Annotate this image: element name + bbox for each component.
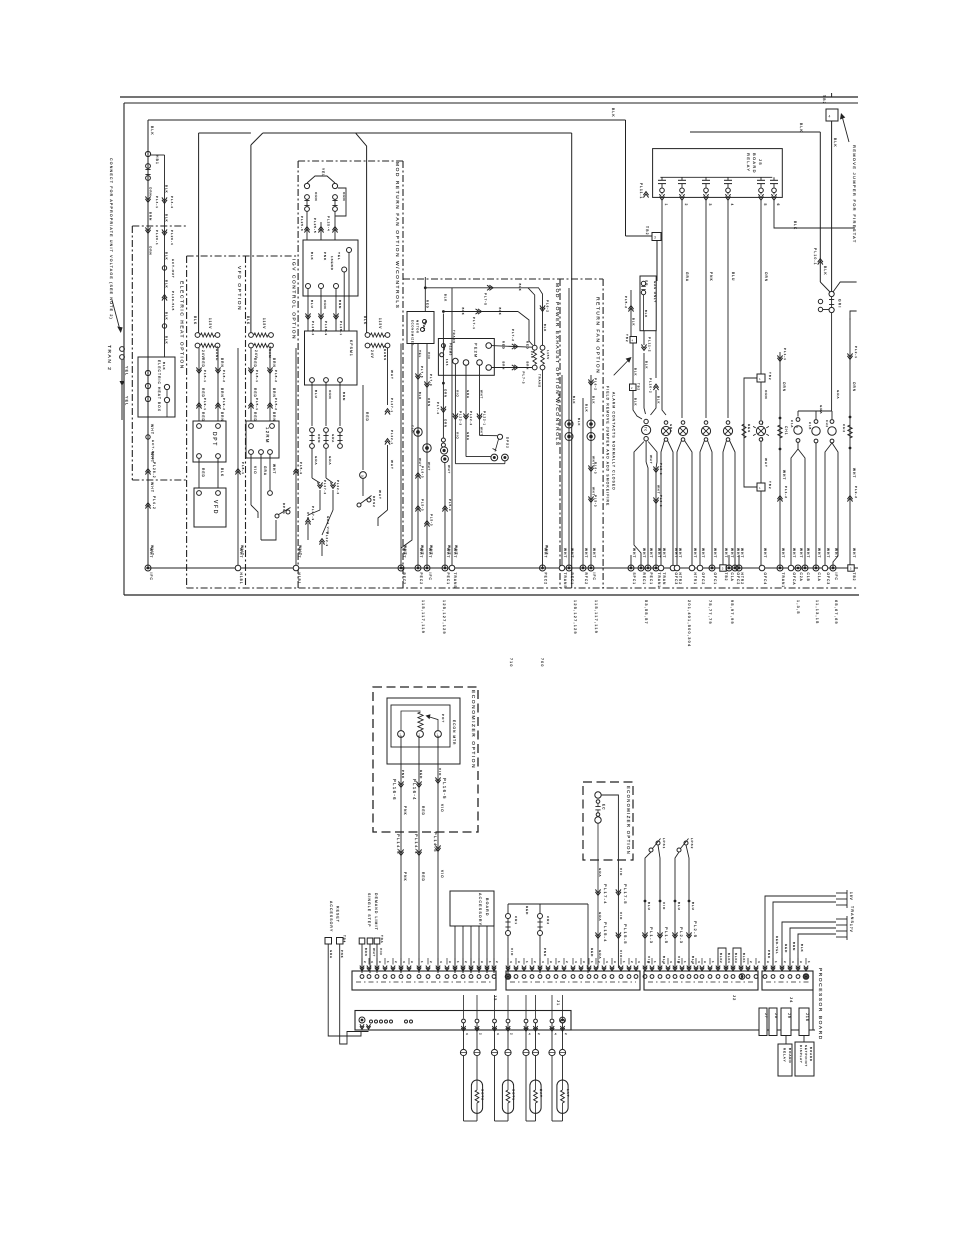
svg-text:4: 4 <box>697 961 701 964</box>
svg-text:J3: J3 <box>493 995 497 1002</box>
svg-text:PL15-4: PL15-4 <box>603 922 608 943</box>
svg-text:TRAN1: TRAN1 <box>781 573 785 589</box>
svg-text:PNK: PNK <box>709 272 713 282</box>
svg-text:1: 1 <box>488 961 492 964</box>
svg-text:4: 4 <box>472 961 476 964</box>
svg-text:ORN: ORN <box>764 272 768 282</box>
svg-text:WHT: WHT <box>390 460 394 470</box>
svg-text:IFC: IFC <box>592 573 596 581</box>
svg-text:PL5-2: PL5-2 <box>624 296 628 309</box>
svg-text:YEL: YEL <box>125 366 129 376</box>
svg-text:PL6-2: PL6-2 <box>594 378 598 391</box>
svg-text:CH1: CH1 <box>784 426 788 436</box>
svg-text:WHT: WHT <box>453 548 457 558</box>
svg-text:PL1-2: PL1-2 <box>784 486 788 499</box>
svg-text:WHT: WHT <box>592 548 596 558</box>
svg-text:IFC: IFC <box>149 573 153 581</box>
svg-text:3: 3 <box>410 961 414 964</box>
svg-text:CONNECT FOR APPROPRIATE UNIT V: CONNECT FOR APPROPRIATE UNIT VOLTAGE (SE… <box>109 158 113 320</box>
svg-text:1: 1 <box>557 961 561 964</box>
svg-text:WHT: WHT <box>713 548 717 558</box>
svg-text:GRA: GRA <box>331 434 335 443</box>
svg-text:PL5-2: PL5-2 <box>274 398 278 411</box>
svg-text:BLK: BLK <box>193 316 197 325</box>
svg-text:PNK: PNK <box>543 948 547 957</box>
svg-text:BLK: BLK <box>634 398 638 406</box>
svg-text:J7: J7 <box>764 1013 768 1019</box>
svg-text:TRANS: TRANS <box>383 346 387 361</box>
svg-text:4: 4 <box>496 1033 500 1036</box>
svg-text:ECON MTR: ECON MTR <box>452 720 456 745</box>
svg-text:PEC2: PEC2 <box>544 573 548 586</box>
svg-text:PL20-1: PL20-1 <box>155 230 159 246</box>
svg-text:VIO: VIO <box>619 912 623 920</box>
svg-text:2: 2 <box>510 1033 514 1036</box>
svg-text:WHT: WHT <box>378 490 382 500</box>
svg-text:BLK: BLK <box>577 418 581 426</box>
svg-text:VIO: VIO <box>253 466 257 475</box>
svg-text:2: 2 <box>394 961 398 964</box>
svg-text:RED: RED <box>425 300 429 309</box>
svg-text:53,55,57: 53,55,57 <box>644 600 648 625</box>
svg-text:3: 3 <box>613 961 617 964</box>
svg-text:DPT: DPT <box>211 432 217 447</box>
svg-text:BLK: BLK <box>220 468 224 477</box>
svg-text:WHT: WHT <box>852 548 856 558</box>
svg-text:DEMAND LIMIT: DEMAND LIMIT <box>374 893 378 931</box>
svg-text:BLU: BLU <box>677 902 681 911</box>
svg-text:TB2: TB2 <box>852 573 856 582</box>
svg-text:4: 4 <box>791 961 795 964</box>
svg-text:1: 1 <box>590 961 594 964</box>
svg-text:BLU: BLU <box>647 902 651 911</box>
svg-text:BLK: BLK <box>572 396 576 404</box>
svg-text:BLK: BLK <box>165 185 169 194</box>
svg-text:YEL: YEL <box>418 350 422 358</box>
svg-text:201,401,500,304: 201,401,500,304 <box>687 600 691 647</box>
svg-text:4: 4 <box>528 1033 532 1036</box>
svg-text:ORN: ORN <box>314 192 318 202</box>
svg-text:2: 2 <box>661 961 665 964</box>
svg-text:4: 4 <box>554 1033 558 1036</box>
svg-text:PL4-2: PL4-2 <box>152 496 156 510</box>
svg-text:WHT: WHT <box>730 548 734 558</box>
svg-text:BRN: BRN <box>526 362 530 371</box>
svg-text:MOTOR: MOTOR <box>416 320 420 334</box>
svg-text:VIO: VIO <box>619 868 623 876</box>
svg-text:WHT: WHT <box>781 548 785 558</box>
svg-text:PNK: PNK <box>323 252 327 261</box>
svg-text:PEC2: PEC2 <box>419 573 423 586</box>
svg-text:WHT: WHT <box>724 548 728 558</box>
svg-text:BRN: BRN <box>338 300 342 309</box>
svg-text:BRN: BRN <box>792 942 796 951</box>
svg-text:ORN: ORN <box>149 246 153 256</box>
svg-text:WHT: WHT <box>782 470 786 480</box>
svg-text:SCT1: SCT1 <box>512 1089 516 1101</box>
svg-text:J5: J5 <box>758 159 763 166</box>
svg-text:VIO: VIO <box>427 352 431 360</box>
svg-text:4: 4 <box>605 961 609 964</box>
svg-text:IGV CONTROL OPTION: IGV CONTROL OPTION <box>291 259 297 340</box>
svg-text:ELECTRIC HEAT OPTION: ELECTRIC HEAT OPTION <box>179 281 185 370</box>
svg-text:4: 4 <box>637 961 641 964</box>
svg-text:2: 2 <box>597 961 601 964</box>
svg-text:ORN: ORN <box>328 390 332 400</box>
svg-text:REMOVE JUMPER FOR FIRESTAT: REMOVE JUMPER FOR FIRESTAT <box>852 145 857 244</box>
svg-text:BRN: BRN <box>272 358 276 368</box>
svg-text:2: 2 <box>783 961 787 964</box>
svg-text:GRI: GRI <box>838 299 842 308</box>
svg-text:4: 4 <box>669 961 673 964</box>
svg-text:PL17-5: PL17-5 <box>623 884 628 905</box>
svg-text:WHT: WHT <box>149 548 153 558</box>
svg-text:TRANS: TRANS <box>850 906 854 924</box>
svg-text:WHT: WHT <box>649 455 653 464</box>
svg-text:PL1-5: PL1-5 <box>664 927 669 944</box>
svg-text:ORN: ORN <box>317 434 321 443</box>
svg-text:2: 2 <box>565 961 569 964</box>
svg-text:RED: RED <box>253 358 257 368</box>
svg-text:WHT: WHT <box>427 462 431 471</box>
svg-text:GRA: GRA <box>328 456 332 465</box>
svg-text:3: 3 <box>703 961 707 964</box>
svg-text:2: 2 <box>719 961 723 964</box>
svg-text:BLK: BLK <box>543 324 547 332</box>
svg-text:LAT: LAT <box>566 1089 570 1098</box>
svg-text:PL6-2: PL6-2 <box>546 300 550 313</box>
svg-text:GAS ONLY: GAS ONLY <box>653 281 657 303</box>
svg-text:YEL: YEL <box>337 252 341 261</box>
svg-text:RED: RED <box>201 412 205 422</box>
svg-text:WHT: WHT <box>852 468 856 478</box>
svg-text:L5: L5 <box>171 306 175 311</box>
svg-text:TRANS: TRANS <box>452 330 456 344</box>
svg-text:24V: 24V <box>530 351 534 359</box>
svg-text:WHT: WHT <box>740 548 744 558</box>
svg-text:KFSM1: KFSM1 <box>349 340 353 357</box>
svg-text:PL22-1: PL22-1 <box>483 411 487 426</box>
svg-text:PL16-4: PL16-4 <box>412 779 417 801</box>
svg-text:REC1: REC1 <box>570 573 574 586</box>
svg-text:BRN: BRN <box>502 362 506 371</box>
svg-text:IFC: IFC <box>428 573 432 581</box>
svg-text:1: 1 <box>456 961 460 964</box>
svg-text:BLK: BLK <box>461 308 465 316</box>
svg-text:1: 1 <box>711 961 715 964</box>
svg-text:BLK: BLK <box>585 404 589 413</box>
svg-text:3: 3 <box>378 961 382 964</box>
svg-text:BLK: BLK <box>799 123 803 133</box>
svg-text:4: 4 <box>541 961 545 964</box>
svg-text:BLK: BLK <box>165 312 169 321</box>
svg-text:ORN: ORN <box>782 382 786 392</box>
svg-text:RED: RED <box>253 388 257 398</box>
svg-text:BLK: BLK <box>592 396 596 404</box>
svg-text:ECONOMIZER OPTION: ECONOMIZER OPTION <box>470 690 476 769</box>
svg-text:RED: RED <box>525 906 529 915</box>
svg-text:TRANS: TRANS <box>538 374 542 388</box>
svg-text:4: 4 <box>730 204 734 207</box>
svg-text:BRN: BRN <box>149 212 153 221</box>
svg-text:OFC1: OFC1 <box>713 573 717 586</box>
svg-text:ECONOMIZER: ECONOMIZER <box>411 320 415 346</box>
svg-text:4: 4 <box>757 961 761 964</box>
svg-text:PL11-2: PL11-2 <box>648 337 652 352</box>
svg-text:VIO: VIO <box>379 948 383 956</box>
svg-text:BLK: BLK <box>632 318 636 326</box>
svg-text:ELECTRIC HEAT BOX: ELECTRIC HEAT BOX <box>157 360 161 412</box>
svg-text:PNK: PNK <box>767 950 771 959</box>
svg-text:2: 2 <box>684 204 688 207</box>
svg-text:DISPLAY: DISPLAY <box>799 1045 803 1064</box>
svg-text:TRAN1: TRAN1 <box>657 573 661 589</box>
svg-text:WHT: WHT <box>297 548 301 558</box>
svg-text:BRN: BRN <box>220 412 224 422</box>
svg-text:WHT: WHT <box>150 482 154 493</box>
svg-text:WHT: WHT <box>649 548 653 558</box>
svg-text:BRN: BRN <box>272 412 276 422</box>
svg-text:3: 3 <box>766 961 770 964</box>
svg-text:PL8-2: PL8-2 <box>222 370 226 383</box>
svg-text:PE2M: PE2M <box>474 343 478 358</box>
svg-text:BLK: BLK <box>793 221 797 230</box>
svg-text:WHT: WHT <box>372 948 376 957</box>
svg-text:125,127,129: 125,127,129 <box>442 600 446 635</box>
svg-text:710: 710 <box>509 658 513 668</box>
svg-text:3: 3 <box>448 961 452 964</box>
svg-text:PL5-3: PL5-3 <box>299 462 303 475</box>
svg-text:H1B1: H1B1 <box>239 573 243 585</box>
svg-text:YEL: YEL <box>321 168 325 177</box>
svg-text:YEL: YEL <box>125 396 129 406</box>
svg-text:GRA: GRA <box>669 424 673 433</box>
svg-text:BLK: BLK <box>657 396 661 404</box>
svg-text:2: 2 <box>749 961 753 964</box>
svg-text:PL25-5: PL25-5 <box>313 218 317 234</box>
svg-text:DPS2: DPS2 <box>506 437 510 449</box>
svg-text:BRN: BRN <box>220 388 224 398</box>
svg-text:PL5-1: PL5-1 <box>255 398 259 411</box>
svg-text:PL28-3: PL28-3 <box>324 321 328 336</box>
svg-text:115V: 115V <box>378 318 382 329</box>
svg-text:BLK: BLK <box>557 394 561 403</box>
svg-text:RETURN FAN OPTION: RETURN FAN OPTION <box>595 297 601 374</box>
svg-text:LPS1: LPS1 <box>662 838 666 849</box>
svg-text:4: 4 <box>632 339 634 343</box>
svg-text:WHT: WHT <box>480 390 484 399</box>
svg-text:PL8-1: PL8-1 <box>203 370 207 383</box>
svg-text:WHT: WHT <box>563 548 567 558</box>
svg-text:MOD POWER EXHAUST OPTION W/CON: MOD POWER EXHAUST OPTION W/CONTROLS <box>554 283 560 447</box>
svg-text:LPS2: LPS2 <box>690 838 694 849</box>
svg-text:RFC2: RFC2 <box>402 573 406 586</box>
svg-text:SPC1: SPC1 <box>632 573 636 586</box>
svg-text:C1A: C1A <box>817 573 821 582</box>
svg-text:3: 3 <box>480 961 484 964</box>
svg-text:PL22-3: PL22-3 <box>459 411 463 426</box>
svg-text:PL22-3: PL22-3 <box>325 532 329 547</box>
svg-text:PL27-2: PL27-2 <box>323 480 327 495</box>
svg-text:1: 1 <box>653 961 657 964</box>
svg-text:RED-YEL: RED-YEL <box>775 936 779 955</box>
svg-text:PL17-4: PL17-4 <box>603 884 608 905</box>
svg-text:TB2: TB2 <box>724 573 728 582</box>
svg-text:ORN: ORN <box>444 419 448 428</box>
svg-text:GRA: GRA <box>263 466 267 476</box>
svg-text:VIO: VIO <box>510 948 514 956</box>
svg-text:WHT: WHT <box>447 465 451 474</box>
svg-text:1: 1 <box>759 377 761 381</box>
svg-text:PL2-5: PL2-5 <box>693 921 698 938</box>
svg-text:PL7-4: PL7-4 <box>436 402 440 415</box>
svg-text:GRA: GRA <box>598 868 602 877</box>
svg-text:TB2: TB2 <box>637 383 641 391</box>
svg-text:4: 4 <box>370 961 374 964</box>
svg-text:BLK: BLK <box>418 392 422 400</box>
svg-text:BLK: BLK <box>634 368 638 376</box>
svg-text:PL7-2: PL7-2 <box>511 329 515 342</box>
svg-text:RELAY: RELAY <box>746 153 751 172</box>
svg-text:J1: J1 <box>556 1000 560 1007</box>
svg-text:OFC4: OFC4 <box>763 573 767 586</box>
svg-text:HB1: HB1 <box>155 155 159 165</box>
svg-text:WHT: WHT <box>763 548 767 558</box>
svg-text:ORN: ORN <box>323 300 327 310</box>
svg-text:GRA: GRA <box>836 390 840 399</box>
svg-text:2: 2 <box>429 961 433 964</box>
svg-text:TDA: TDA <box>380 935 384 944</box>
svg-text:CH2: CH2 <box>842 424 846 433</box>
svg-text:BOARD: BOARD <box>788 1048 792 1064</box>
svg-text:WHT: WHT <box>834 548 838 558</box>
svg-text:PNK: PNK <box>403 806 407 816</box>
svg-text:RED: RED <box>421 806 425 816</box>
svg-text:BOARD: BOARD <box>752 153 757 174</box>
svg-text:C2A: C2A <box>799 573 803 582</box>
svg-text:PL25-6: PL25-6 <box>300 216 304 232</box>
svg-text:WHT: WHT <box>428 548 432 558</box>
svg-text:PL16-6: PL16-6 <box>392 779 397 801</box>
svg-text:SINGLE STEP: SINGLE STEP <box>367 893 371 928</box>
svg-text:POT: POT <box>441 714 445 723</box>
svg-text:PL22-2: PL22-2 <box>336 480 340 495</box>
svg-text:FIELD REMOVE JUMPER AND ADD SM: FIELD REMOVE JUMPER AND ADD SMOKE/FIRE <box>606 386 610 506</box>
svg-text:RFC2: RFC2 <box>584 573 588 586</box>
svg-text:TB2: TB2 <box>822 95 826 105</box>
svg-text:BLK: BLK <box>823 266 827 276</box>
svg-text:BLK: BLK <box>800 944 804 953</box>
svg-text:CLO: CLO <box>411 425 415 433</box>
svg-text:6: 6 <box>776 204 780 207</box>
svg-text:BLK: BLK <box>165 280 169 289</box>
svg-text:1SEND: 1SEND <box>330 256 334 271</box>
svg-text:1: 1 <box>664 204 668 207</box>
svg-text:BLK: BLK <box>444 294 448 302</box>
svg-text:RED: RED <box>419 770 423 779</box>
svg-text:WHT: WHT <box>419 548 423 558</box>
svg-text:RED: RED <box>201 388 205 398</box>
svg-text:PL22-1: PL22-1 <box>390 430 394 445</box>
svg-text:BLK: BLK <box>644 310 648 318</box>
svg-text:J2: J2 <box>732 995 736 1002</box>
svg-text:5: 5 <box>763 204 767 207</box>
svg-text:BLK: BLK <box>498 308 502 316</box>
svg-text:75,77,79: 75,77,79 <box>708 600 712 625</box>
svg-text:3: 3 <box>549 961 553 964</box>
svg-text:3: 3 <box>799 961 803 964</box>
svg-text:1: 1 <box>807 961 811 964</box>
svg-text:PL4-1: PL4-1 <box>155 196 159 209</box>
svg-text:PL8-1: PL8-1 <box>255 370 259 383</box>
svg-text:PNK: PNK <box>401 770 405 779</box>
svg-text:DPS2: DPS2 <box>372 496 376 508</box>
svg-text:HTR2: HTR2 <box>740 573 744 586</box>
svg-text:WHT: WHT <box>480 427 484 436</box>
svg-text:PL9-1: PL9-1 <box>203 398 207 411</box>
svg-text:BLU: BLU <box>731 272 735 281</box>
svg-text:RED: RED <box>253 412 257 422</box>
svg-text:PL9-2: PL9-2 <box>222 398 226 411</box>
svg-text:WHT: WHT <box>826 548 830 558</box>
svg-text:RED: RED <box>590 948 594 957</box>
svg-text:WHT: WHT <box>817 548 821 558</box>
svg-text:1,3,5: 1,3,5 <box>796 600 800 615</box>
svg-text:1: 1 <box>759 486 761 490</box>
svg-text:VIO: VIO <box>440 870 444 879</box>
svg-text:ACCESSORY: ACCESSORY <box>478 893 482 926</box>
svg-text:PROCESSOR BOARD: PROCESSOR BOARD <box>817 968 823 1041</box>
svg-text:TRAN: TRAN <box>662 573 666 586</box>
svg-text:PL15-5: PL15-5 <box>623 924 628 945</box>
svg-text:PL1-3: PL1-3 <box>649 927 654 944</box>
svg-text:4: 4 <box>574 961 578 964</box>
svg-text:BLK: BLK <box>833 138 837 148</box>
svg-text:C1B: C1B <box>806 573 810 582</box>
svg-text:2: 2 <box>533 961 537 964</box>
svg-text:CH2: CH2 <box>825 420 829 428</box>
svg-text:17V: 17V <box>849 924 853 933</box>
svg-text:WHT: WHT <box>446 548 450 558</box>
svg-text:BLK: BLK <box>150 126 154 136</box>
svg-text:BLK: BLK <box>246 316 250 325</box>
svg-text:65,67,69: 65,67,69 <box>834 600 838 625</box>
svg-text:ACCESSORY: ACCESSORY <box>329 901 333 932</box>
svg-text:115,117,119: 115,117,119 <box>421 600 425 634</box>
svg-text:TB2: TB2 <box>645 226 649 236</box>
svg-text:11,13,15: 11,13,15 <box>815 600 819 625</box>
svg-text:MOD RETURN FAN OPTION W/CONTRO: MOD RETURN FAN OPTION W/CONTROLS <box>394 162 400 309</box>
svg-text:ORN: ORN <box>149 187 153 197</box>
svg-text:115V: 115V <box>262 318 266 329</box>
svg-text:WHT: WHT <box>657 485 661 494</box>
svg-text:700: 700 <box>540 658 544 668</box>
svg-text:RED: RED <box>421 872 425 882</box>
svg-text:1: 1 <box>622 961 626 964</box>
svg-text:PL28-2: PL28-2 <box>311 321 315 336</box>
svg-text:WHT: WHT <box>662 548 666 558</box>
svg-text:TB2: TB2 <box>768 372 772 380</box>
svg-text:J9: J9 <box>787 1013 791 1019</box>
svg-text:EC: EC <box>602 804 606 811</box>
svg-text:1: 1 <box>742 961 746 964</box>
svg-text:WHT: WHT <box>806 548 810 558</box>
svg-text:PL26-2: PL26-2 <box>152 462 156 479</box>
svg-text:RELAY: RELAY <box>783 1048 787 1063</box>
svg-text:PL5-3: PL5-3 <box>594 495 598 508</box>
svg-text:VIO: VIO <box>438 768 442 776</box>
svg-text:RES: RES <box>747 424 751 433</box>
